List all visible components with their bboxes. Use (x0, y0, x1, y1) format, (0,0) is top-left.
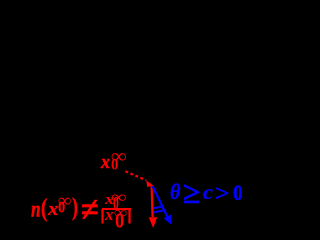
geq sign (183, 179, 200, 209)
wire: red vertical vector stem (152, 187, 153, 218)
blue angle tick 2 (154, 210, 166, 212)
numerator subscript 0 (113, 194, 119, 212)
denominator x (105, 208, 114, 225)
blue angle tick 1 (153, 206, 163, 208)
blue inequality: theta (170, 181, 180, 204)
neq sign (81, 192, 99, 227)
denominator left bar (99, 208, 106, 224)
wire: svg layer with vectors (0, 0, 242, 228)
open paren (41, 195, 47, 220)
denominator superscript infinity (114, 204, 127, 220)
c variable (203, 183, 213, 203)
red formula: n (31, 197, 41, 221)
zero (233, 182, 243, 204)
fraction bar (102, 208, 131, 210)
node label x_0^infty (red): x (101, 154, 110, 173)
label subscript 0 (111, 158, 118, 174)
formula superscript infinity (58, 193, 71, 212)
formula subscript 0 (58, 200, 65, 217)
label superscript infinity (111, 148, 127, 168)
fraction numerator x (105, 193, 114, 208)
denominator right bar (126, 208, 133, 224)
blue arrowhead (164, 214, 172, 224)
formula x (48, 199, 58, 218)
wire: blue vector stem (153, 186, 168, 216)
numerator superscript infinity (111, 188, 126, 205)
denominator subscript 0 (115, 210, 124, 231)
close paren (72, 194, 78, 220)
gt sign (215, 183, 230, 205)
wire: red dashed leader line from x_0^infty label to junction point (126, 171, 147, 180)
node A: red arrowhead of leader at junction point (146, 180, 154, 187)
red arrowhead bottom of vertical vector (149, 217, 157, 228)
